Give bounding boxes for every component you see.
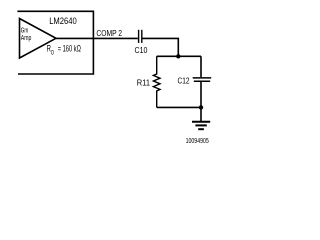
IC box U1 LM2640 outline (open on left) — [17, 11, 93, 74]
node B bottom wire (R11 to ground junction) — [157, 106, 201, 108]
op-amp U1 Gm Amp triangle — [20, 19, 57, 59]
node A horizontal bar — [157, 55, 201, 57]
svg-text:C10: C10 — [135, 45, 148, 55]
svg-text:= 160 kΩ: = 160 kΩ — [58, 44, 81, 54]
svg-text:Amp: Amp — [21, 33, 32, 42]
ground symbol — [192, 107, 210, 129]
wire from C12 bottom plate down to node B — [200, 82, 202, 107]
junction dot node B — [199, 105, 203, 109]
wire from op-amp output through COMP2 pin to C10 — [56, 37, 138, 39]
svg-text:O: O — [51, 49, 54, 56]
capacitor C10 — [139, 30, 142, 43]
wire from C10 right plate to corner and down to node A — [143, 38, 179, 56]
junction dot node A — [176, 54, 180, 58]
svg-text:2: 2 — [118, 28, 122, 38]
svg-text:LM2640: LM2640 — [49, 16, 77, 26]
resistor R11 (vertical zigzag) — [153, 56, 160, 107]
svg-text:R11: R11 — [137, 77, 150, 87]
wire from node A down to C12 — [200, 56, 202, 77]
svg-text:COMP: COMP — [96, 28, 116, 38]
capacitor C12 — [193, 78, 212, 81]
svg-text:10094905: 10094905 — [186, 138, 209, 145]
svg-text:C12: C12 — [178, 76, 190, 86]
